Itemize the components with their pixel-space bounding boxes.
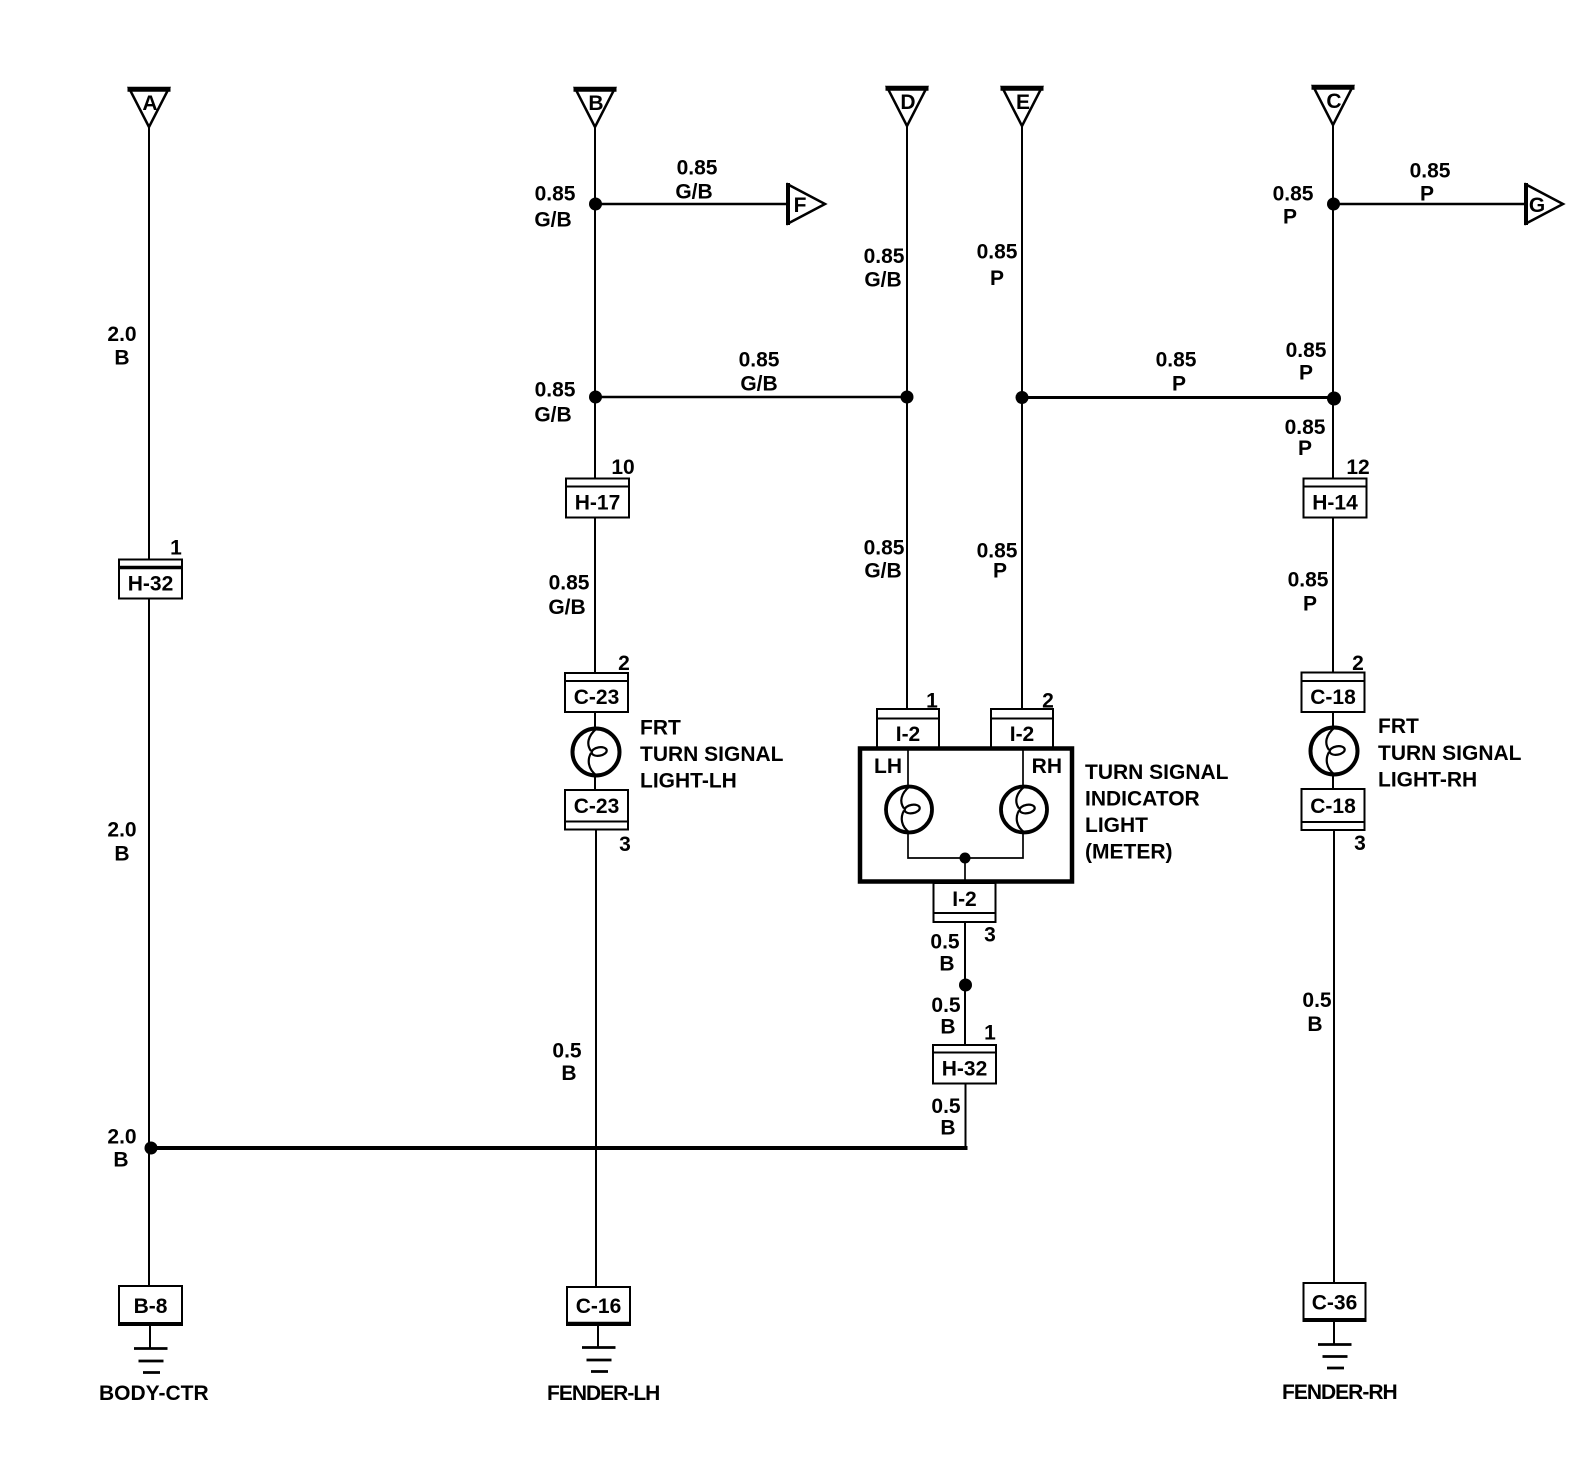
svg-text:P: P [1303, 593, 1317, 616]
svg-text:I-2: I-2 [896, 723, 921, 746]
svg-text:(METER): (METER) [1085, 841, 1173, 864]
svg-text:TURN SIGNAL: TURN SIGNAL [1378, 742, 1522, 765]
wire H-32 middle down to bend [965, 1084, 967, 1147]
label 0.85 G/B (D column upper) [864, 245, 905, 292]
label 0.85 G/B (left of B-F junction) [534, 183, 575, 232]
svg-text:0.85: 0.85 [864, 245, 905, 268]
label 0.5 B (below H-32 middle) [931, 1095, 961, 1140]
svg-text:E: E [1016, 91, 1030, 114]
svg-text:G/B: G/B [675, 181, 712, 204]
svg-text:BODY-CTR: BODY-CTR [99, 1382, 209, 1405]
svg-text:B: B [114, 843, 129, 866]
label 0.85 P (E column upper) [977, 241, 1018, 291]
connector C-23 upper [565, 673, 628, 712]
svg-text:0.85: 0.85 [739, 349, 780, 372]
svg-text:G/B: G/B [534, 209, 571, 232]
wire D vertical [906, 126, 908, 709]
svg-text:G/B: G/B [864, 269, 901, 292]
ground FENDER-LH [582, 1348, 616, 1372]
svg-text:G/B: G/B [548, 596, 585, 619]
svg-text:0.85: 0.85 [977, 241, 1018, 264]
label 0.85 G/B (D column lower) [864, 537, 905, 583]
svg-text:P: P [1420, 183, 1434, 206]
svg-text:C-36: C-36 [1312, 1292, 1358, 1315]
svg-text:C-23: C-23 [574, 795, 620, 818]
svg-text:2.0: 2.0 [107, 323, 136, 346]
svg-text:P: P [993, 560, 1007, 583]
svg-text:B: B [114, 347, 129, 370]
meter internal wire to pin 3 [964, 858, 966, 883]
svg-text:2.0: 2.0 [107, 1126, 136, 1149]
svg-text:I-2: I-2 [1010, 723, 1035, 746]
svg-text:0.85: 0.85 [535, 379, 576, 402]
ground BODY-CTR [134, 1349, 168, 1373]
middle junction dot [959, 979, 972, 992]
meter internal wire LH [908, 750, 965, 858]
label 0.85 P (E column lower) [977, 540, 1018, 583]
connector C-18 upper [1302, 673, 1365, 713]
junction on A ground bus [145, 1142, 158, 1155]
meter internal junction [960, 853, 971, 864]
svg-text:10: 10 [611, 456, 634, 479]
svg-text:INDICATOR: INDICATOR [1085, 788, 1200, 811]
svg-text:2.0: 2.0 [107, 819, 136, 842]
ground wire C-36 [1333, 1321, 1335, 1344]
lamp turn signal indicator LH [886, 787, 932, 833]
svg-text:C: C [1326, 90, 1341, 113]
svg-text:FRT: FRT [1378, 715, 1419, 738]
lamp FRT TURN SIGNAL LIGHT-RH [1311, 728, 1358, 775]
label 0.85 G/B (above B-F wire) [675, 157, 717, 204]
connector H-14 [1304, 479, 1367, 518]
svg-text:G/B: G/B [740, 373, 777, 396]
svg-text:LIGHT-LH: LIGHT-LH [640, 770, 737, 793]
ground wire B-8 [149, 1325, 151, 1348]
junction on E [1016, 391, 1029, 404]
label 2.0 B (A lower) [107, 819, 136, 866]
wire C between H-14 and C-18 [1332, 518, 1334, 673]
wire lamp to C-23 lower [594, 774, 596, 790]
lamp FRT TURN SIGNAL LIGHT-LH [573, 729, 620, 776]
label 0.85 P (below C second junction) [1285, 416, 1326, 460]
svg-text:B: B [1307, 1013, 1322, 1036]
connector H-32 left [119, 560, 182, 599]
label 0.85 P (below H-14) [1288, 569, 1329, 616]
svg-text:P: P [1298, 437, 1312, 460]
svg-text:3: 3 [619, 833, 631, 856]
svg-text:0.85: 0.85 [1285, 416, 1326, 439]
connector H-32 middle [933, 1045, 996, 1084]
svg-text:C-23: C-23 [574, 686, 620, 709]
connector I-2 pin 3 [934, 883, 996, 922]
meter box TURN SIGNAL INDICATOR LIGHT [860, 749, 1072, 882]
svg-text:H-14: H-14 [1312, 492, 1358, 515]
svg-text:C-18: C-18 [1310, 795, 1356, 818]
svg-text:1: 1 [170, 537, 182, 560]
label 0.85 P (above E-C wire) [1156, 349, 1197, 396]
svg-text:3: 3 [1354, 832, 1366, 855]
svg-text:FENDER-LH: FENDER-LH [547, 1382, 659, 1405]
label 2.0 B (at bottom junction) [107, 1126, 136, 1172]
wire C lower segment to C-36 [1333, 830, 1335, 1283]
svg-text:0.5: 0.5 [552, 1040, 582, 1063]
lamp turn signal indicator RH [1001, 787, 1047, 833]
label TURN SIGNAL INDICATOR LIGHT (METER) [1085, 761, 1229, 864]
svg-text:FENDER-RH: FENDER-RH [1282, 1381, 1397, 1404]
label 0.85 G/B (below H-17) [548, 572, 589, 620]
svg-text:B: B [940, 1117, 955, 1140]
svg-text:H-32: H-32 [942, 1058, 988, 1081]
page connector B [574, 88, 617, 127]
svg-text:B: B [588, 92, 603, 115]
svg-text:G: G [1529, 194, 1545, 217]
svg-text:0.85: 0.85 [677, 157, 718, 180]
label 0.85 G/B (above B-D wire) [739, 349, 780, 396]
ground wire C-16 [597, 1325, 599, 1347]
wire E vertical [1021, 126, 1023, 709]
svg-text:P: P [1299, 362, 1313, 385]
page connector A [128, 88, 171, 127]
junction on C at G tap [1327, 198, 1340, 211]
svg-text:0.85: 0.85 [1156, 349, 1197, 372]
svg-text:P: P [990, 267, 1004, 290]
wire B between H-17 and C-23 [594, 518, 596, 674]
label 0.5 B (C column) [1302, 989, 1332, 1036]
svg-text:1: 1 [984, 1022, 996, 1045]
label 0.5 B (B column) [552, 1040, 582, 1086]
meter internal wire RH [965, 750, 1023, 858]
label 2.0 B (A upper) [107, 323, 136, 370]
svg-text:I-2: I-2 [952, 888, 977, 911]
svg-text:LIGHT: LIGHT [1085, 814, 1148, 837]
label FRT TURN SIGNAL LIGHT-LH [640, 717, 784, 793]
svg-text:C-18: C-18 [1310, 686, 1356, 709]
junction on B at F tap [589, 198, 602, 211]
junction on C second [1327, 392, 1341, 406]
svg-text:FRT: FRT [640, 717, 681, 740]
connector C-23 lower [565, 790, 628, 830]
connector I-2 pin 2 [991, 709, 1053, 749]
svg-text:B-8: B-8 [134, 1295, 168, 1318]
svg-text:H-32: H-32 [128, 573, 174, 596]
wire C upper segment [1332, 125, 1334, 479]
svg-text:P: P [1172, 373, 1186, 396]
connector B-8 [119, 1286, 182, 1325]
svg-text:0.5: 0.5 [930, 931, 960, 954]
svg-text:B: B [940, 1016, 955, 1039]
svg-text:TURN SIGNAL: TURN SIGNAL [640, 743, 784, 766]
svg-text:G/B: G/B [534, 404, 571, 427]
svg-text:0.85: 0.85 [535, 183, 576, 206]
svg-text:0.85: 0.85 [1288, 569, 1329, 592]
svg-text:C-16: C-16 [576, 1295, 622, 1318]
svg-text:B: B [939, 953, 954, 976]
svg-text:A: A [142, 92, 157, 115]
svg-text:B: B [561, 1062, 576, 1085]
label 0.85 G/B (left of B second junction) [534, 379, 575, 427]
svg-text:B: B [113, 1149, 128, 1172]
wire B lower segment to C-16 [595, 830, 597, 1288]
wire lamp to C-18 lower [1332, 773, 1334, 789]
wire C-23 to lamp [594, 712, 596, 730]
page connector D [886, 87, 929, 126]
connector H-17 [566, 479, 629, 518]
connector C-36 [1304, 1283, 1366, 1321]
page connector F (arrow) [788, 183, 825, 225]
svg-text:3: 3 [984, 924, 996, 947]
wire C to G horizontal [1333, 203, 1526, 206]
junction on B second [589, 391, 602, 404]
wire E to C horizontal [1022, 396, 1333, 399]
svg-text:0.5: 0.5 [931, 1095, 961, 1118]
label FRT TURN SIGNAL LIGHT-RH [1378, 715, 1522, 792]
svg-text:F: F [794, 194, 807, 217]
connector C-16 [567, 1287, 630, 1325]
svg-text:0.85: 0.85 [1410, 160, 1451, 183]
svg-text:12: 12 [1346, 456, 1369, 479]
svg-text:0.85: 0.85 [1273, 183, 1314, 206]
svg-text:0.5: 0.5 [1302, 989, 1332, 1012]
label 0.5 B (below middle junction) [931, 994, 961, 1039]
wire B to D horizontal [595, 396, 907, 399]
wire I-2 pin3 down [964, 922, 966, 1045]
junction on D [901, 391, 914, 404]
label 0.5 B (above middle junction) [930, 931, 960, 976]
svg-text:0.85: 0.85 [549, 572, 590, 595]
label 0.85 P (above C second junction) [1286, 339, 1327, 385]
wire B to F horizontal [595, 203, 788, 206]
wire B upper segment [594, 127, 596, 479]
ground bus wire horizontal [151, 1146, 968, 1150]
ground FENDER-RH [1318, 1345, 1352, 1369]
svg-text:2: 2 [618, 652, 630, 675]
page connector E [1001, 87, 1044, 126]
page connector C [1312, 86, 1355, 125]
svg-text:LH: LH [874, 755, 902, 778]
svg-text:0.85: 0.85 [1286, 339, 1327, 362]
svg-text:LIGHT-RH: LIGHT-RH [1378, 769, 1477, 792]
svg-text:0.5: 0.5 [931, 994, 961, 1017]
wire A vertical 2.0 B [148, 127, 150, 1286]
label 0.85 P (left of C-G junction) [1273, 183, 1314, 229]
label 0.85 P (above C-G wire) [1410, 160, 1451, 206]
wire C-18 to lamp [1332, 712, 1334, 729]
svg-text:0.85: 0.85 [864, 537, 905, 560]
svg-text:D: D [900, 91, 915, 114]
svg-text:P: P [1283, 206, 1297, 229]
svg-text:TURN SIGNAL: TURN SIGNAL [1085, 761, 1229, 784]
page connector G (arrow) [1526, 183, 1563, 225]
connector C-18 lower [1302, 789, 1365, 830]
svg-text:G/B: G/B [864, 560, 901, 583]
svg-text:RH: RH [1032, 755, 1062, 778]
connector I-2 pin 1 [877, 709, 939, 749]
svg-text:H-17: H-17 [575, 492, 621, 515]
